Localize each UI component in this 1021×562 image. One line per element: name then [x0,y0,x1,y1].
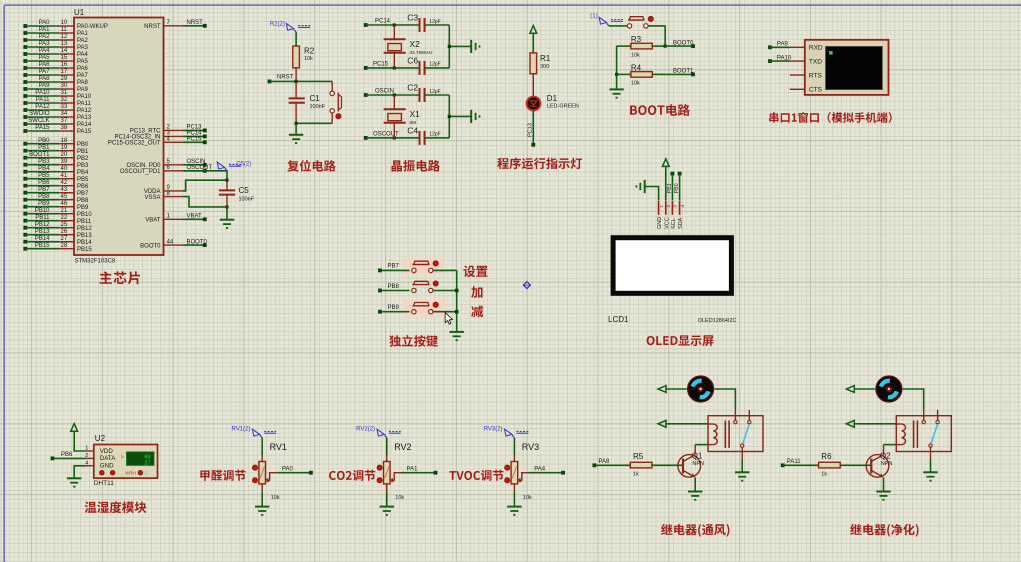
svg-text:OLED12864I2C: OLED12864I2C [698,318,737,324]
probe C5(2) [217,162,224,169]
svg-text:PA15: PA15 [77,129,92,135]
power symbol (motor) [658,386,666,393]
svg-text:OSCIN: OSCIN [375,89,394,95]
svg-text:PB2: PB2 [77,156,89,162]
svg-text:37: 37 [61,118,68,124]
wire contact to ground [930,447,932,459]
svg-text:PB9: PB9 [77,205,89,211]
svg-text:27: 27 [144,461,150,467]
svg-text:12: 12 [61,34,68,40]
wire PB left pin PB10 [23,212,27,216]
svg-text:29: 29 [61,76,68,82]
adjust buttons RV3 [505,465,510,470]
ground (C5) [220,219,234,221]
wire probe to RV1 [261,438,263,455]
label 程序运行指示灯 [497,158,582,170]
svg-text:PB8: PB8 [77,198,89,204]
svg-text:PA5: PA5 [39,55,51,61]
svg-text:C: C [145,471,149,477]
wire PB left pin PB7 [23,191,27,195]
svg-text:15: 15 [61,55,68,61]
svg-text:12pF: 12pF [429,132,440,138]
potentiometer RV3 [511,462,518,484]
resistor R5 [630,462,652,468]
junction C5 top [225,179,228,182]
svg-text:PB6: PB6 [77,184,89,190]
junction PC14/crystal [393,23,396,26]
svg-text:NRST: NRST [144,24,161,30]
svg-text:VBAT: VBAT [145,218,161,224]
svg-text:PB7: PB7 [77,191,89,197]
wire right pin NRST [164,25,184,27]
probe RV2(2) [377,429,384,436]
push button (BOOT) [627,24,631,28]
svg-text:PB12: PB12 [77,226,92,232]
terminal screen [826,46,883,89]
wire PA left pin PA11 [23,101,27,105]
selection highlight key1 [402,258,443,274]
svg-text:OSCOUT_PD1: OSCOUT_PD1 [120,169,161,175]
svg-text:1k: 1k [633,471,639,477]
relay switch blade [743,424,749,443]
resistor R6 [819,462,841,468]
svg-text:RV3(2): RV3(2) [484,427,503,433]
svg-text:SCL: SCL [671,218,677,229]
power symbol (LED) [530,26,537,34]
wire PB left pin PB12 [23,226,27,230]
push button key PB9 [412,310,416,314]
wire PA left pin PA15 [23,129,27,133]
svg-text:PA13: PA13 [77,115,92,121]
wire right pin OSCIN_PD0 [164,164,184,166]
wire right pin VBAT [164,218,184,220]
power symbol (motor) [846,386,854,393]
svg-text:PA6: PA6 [39,62,51,68]
svg-text:%RH: %RH [125,471,137,477]
svg-text:VSSA: VSSA [144,195,160,201]
motor (fan) [876,376,902,402]
junction OSCOUT/crystal [393,136,396,139]
wire PA left pin PA5 [23,59,27,63]
wire button to BOOT0 rail [648,26,665,46]
label 温湿度模块 [85,501,147,513]
resistor R1 [530,53,537,74]
wire coil top [666,423,708,425]
svg-text:SWCLK: SWCLK [28,118,49,124]
svg-text:NPN: NPN [692,461,704,467]
svg-text:22: 22 [61,215,68,221]
svg-text:14: 14 [61,48,68,54]
capacitor C1 [295,81,297,98]
svg-text:>: > [121,455,124,461]
wire PB left pin PB1 [23,149,27,153]
node PC14 [183,135,205,137]
svg-text:PB11: PB11 [35,215,50,221]
svg-text:44: 44 [167,239,174,245]
svg-text:PA10: PA10 [35,90,50,96]
capacitor C3 [419,18,421,32]
svg-text:GND: GND [100,463,114,470]
terminal cursor [829,51,833,55]
svg-text:12pF: 12pF [429,19,440,25]
node NRST [268,80,272,84]
svg-text:BOOT1: BOOT1 [29,152,50,158]
svg-text:20: 20 [61,152,68,158]
svg-text:12pF: 12pF [429,89,440,95]
wire base [652,464,682,466]
wire probe to RV3 [513,438,515,455]
relay coil [713,424,717,445]
junction bus PB8 [455,289,459,293]
wire PA left pin PA8 [23,80,27,84]
svg-text:21: 21 [61,208,68,214]
svg-text:PA2: PA2 [39,34,51,40]
wire key bus [456,270,458,332]
svg-text:38: 38 [61,125,68,131]
potentiometer RV2 [384,462,391,484]
svg-text:RXD: RXD [809,45,823,52]
svg-text:31: 31 [61,90,68,96]
wire PA left pin PA2 [23,38,27,42]
svg-text:C3: C3 [407,13,418,23]
svg-text:PA7: PA7 [77,73,89,79]
power symbol (DHT11) [71,424,78,432]
probe RV3(2) [505,429,512,436]
wire coil top [854,423,896,425]
svg-text:PA12: PA12 [35,104,50,110]
node BOOT0 [183,244,205,246]
svg-text:PA4: PA4 [77,52,89,58]
node OSCOUT [183,170,205,172]
label CO2调节 [329,470,375,481]
svg-text:PA2: PA2 [77,38,89,44]
junction rail [295,122,298,125]
svg-text:33: 33 [61,104,68,110]
pin 1 DHT11 [86,450,94,452]
wire probe to RV2 [386,438,388,455]
relay contacts [734,409,736,420]
node PB1 terminal [671,172,675,176]
svg-text:19: 19 [61,145,68,151]
node VBAT [183,218,205,220]
svg-text:PB7: PB7 [388,264,400,270]
svg-text:13: 13 [61,41,68,47]
wire to ground [616,74,618,89]
svg-text:PB6: PB6 [61,452,73,458]
pin 2 DHT11 [86,457,94,459]
svg-text:10k: 10k [304,56,313,62]
pin GND [657,200,661,215]
label 串口1窗口（模拟手机端） [769,112,892,123]
ground (BOOT) [609,88,623,90]
push button key PB7 [412,268,416,272]
svg-text:DHT11: DHT11 [94,480,114,487]
crystal X2 [393,25,395,39]
svg-text:LED-GREEN: LED-GREEN [547,104,579,110]
relay body [896,416,951,452]
wire PB left pin PB15 [23,247,27,251]
ground (Q1 emitter) [688,491,702,493]
wire PB left pin PB8 [23,198,27,202]
svg-text:C1: C1 [310,94,321,103]
svg-text:42: 42 [61,180,68,186]
pin RXD [790,46,805,48]
svg-text:PB9: PB9 [38,201,50,207]
wire GND pin [74,466,85,479]
node PA4 [529,472,564,474]
label 加 [471,286,482,298]
wire PB left pin PB3 [23,163,27,167]
svg-text:40: 40 [61,166,68,172]
node OSCOUT [364,136,368,140]
svg-text:PA0: PA0 [39,20,51,26]
wire PA left pin PA7 [23,73,27,77]
wire gnd to pin1 [645,187,659,202]
label OLED显示屏 [647,335,714,346]
svg-text:GND: GND [657,217,663,229]
svg-text:43: 43 [61,187,68,193]
junction gnd branch [448,45,451,48]
wire PB left pin PB13 [23,233,27,237]
node OSCIN [364,93,368,97]
wire base [840,464,870,466]
crystal X1 [393,95,395,109]
wire RV2 to ground [386,484,388,492]
svg-text:Q1: Q1 [692,452,703,461]
node PB6 [51,457,55,461]
svg-text:25: 25 [61,222,68,228]
svg-text:U1: U1 [74,8,85,17]
node PA11 [781,463,785,467]
svg-text:PB15: PB15 [35,243,50,249]
svg-text:PB3: PB3 [38,159,50,165]
svg-text:16: 16 [61,62,68,68]
virtual terminal frame [805,40,889,95]
wire right pin BOOT0 [164,244,184,246]
motor (fan) [688,376,714,402]
wire PA left pin PA10 [23,94,27,98]
wire RV3 to ground [513,484,515,492]
wire PB left pin PB11 [23,219,27,223]
svg-text:NPN: NPN [881,461,893,467]
svg-text:RV2(2): RV2(2) [356,427,375,433]
label 设置 [463,266,487,278]
capacitor C2 [419,88,421,102]
wire R3-R4 vertical [616,46,618,74]
svg-text:R2: R2 [304,47,315,56]
wire PB left pin PB6 [23,184,27,188]
svg-text:28: 28 [61,243,68,249]
wire emitter to ground [883,477,885,491]
wire OSCOUT to C5 top [183,171,227,180]
node PC15 [364,66,368,70]
node PC13 [183,129,205,131]
wire button bottom rail [331,113,333,123]
svg-text:18: 18 [61,138,68,144]
label 继电器(通风) [661,524,729,537]
svg-text:PB8: PB8 [38,194,50,200]
wire VSSA to C5 [183,197,227,207]
power symbol (coil) [846,420,854,427]
pin SDA [678,200,682,215]
ground (Q2 emitter) [876,491,890,493]
svg-text:R3: R3 [631,35,642,44]
svg-text:BOOT0: BOOT0 [140,243,161,249]
wire right pin PC15-OSC32_OUT [164,141,184,143]
svg-text:11: 11 [61,27,68,33]
svg-text:PB0: PB0 [77,142,89,148]
node PB0 terminal [678,172,682,176]
svg-text:PB11: PB11 [77,219,92,225]
wire to ground [295,123,297,135]
svg-text:PB4: PB4 [77,170,89,176]
node PA9 [768,45,772,49]
probe (1) [599,17,606,24]
svg-text:10k: 10k [631,52,640,58]
svg-text:RV3: RV3 [522,442,539,452]
ground (relay contact) [735,471,749,473]
capacitor C5 [226,180,228,190]
label 继电器(净化) [850,524,918,537]
svg-text:17: 17 [61,69,68,75]
svg-text:DATA: DATA [100,455,116,462]
svg-text:PA5: PA5 [77,59,89,65]
svg-text:SDA: SDA [678,217,684,229]
svg-text:C5(2): C5(2) [236,161,251,167]
svg-text:PB6: PB6 [38,180,50,186]
transistor Q1 [678,455,701,478]
potentiometer RV1 [259,462,266,484]
wire PB left pin BOOT1 [23,156,27,160]
svg-text:VBAT: VBAT [187,214,203,220]
DHT11 buttons [100,470,105,475]
svg-text:PA15: PA15 [35,125,50,131]
pin CTS [790,88,805,90]
wire PA left pin PA3 [23,45,27,49]
DHT11 display [127,452,154,465]
ground (RV2) [380,506,394,508]
label BOOT电路 [630,104,690,116]
label 晶振电路 [392,160,440,172]
wire PB left pin PB14 [23,240,27,244]
svg-text:PA9: PA9 [39,83,51,89]
wire key to bus [433,290,457,292]
mouse cursor [445,313,452,325]
svg-text:PA1: PA1 [407,466,419,472]
svg-text:1: 1 [85,446,88,452]
svg-text:PA10: PA10 [77,94,92,100]
probe R2(2) [286,23,293,30]
svg-text:U2: U2 [95,434,106,443]
wire motor left [666,388,687,390]
ground (reset) [289,134,303,136]
wire probe to button [609,25,627,27]
svg-text:PA10: PA10 [777,55,792,61]
svg-text:PA4: PA4 [534,466,546,472]
svg-text:SWDIO: SWDIO [29,111,50,117]
svg-text:PB1: PB1 [77,149,89,155]
svg-text:69: 69 [144,454,150,460]
svg-text:RV1(2): RV1(2) [232,427,251,433]
wire right pin VDDA [164,190,184,192]
svg-text:PB13: PB13 [35,229,50,235]
wire caps to ground [425,94,450,96]
wire key to bus [433,269,457,271]
svg-text:X1: X1 [410,109,421,119]
svg-text:45: 45 [61,194,68,200]
node PC15 [183,141,205,143]
svg-text:PA1: PA1 [77,31,89,37]
wire R1 to LED [532,74,534,97]
svg-text:PA11: PA11 [36,97,50,103]
svg-text:C6: C6 [407,56,418,66]
svg-text:PB12: PB12 [35,222,50,228]
svg-text:PA8: PA8 [599,459,611,465]
svg-text:PA11: PA11 [787,459,801,465]
relay coil [902,424,906,445]
svg-text:PB15: PB15 [77,247,92,253]
capacitor C6 [419,61,421,75]
wire RV1 to ground [261,484,263,492]
svg-text:PC15-OSC32_OUT: PC15-OSC32_OUT [108,141,161,147]
svg-text:STM32F103C8: STM32F103C8 [75,259,116,265]
power symbol (coil) [658,420,666,427]
node NRST [183,25,205,27]
LCD1 OLED display body [613,238,731,294]
svg-text:CTS: CTS [809,87,823,94]
svg-text:BOOT0: BOOT0 [187,239,208,245]
ground (RV1) [255,506,269,508]
svg-text:300: 300 [540,64,549,70]
wire PB left pin PB0 [23,142,27,146]
svg-text:C4: C4 [407,126,418,136]
svg-text:10k: 10k [271,495,280,501]
svg-text:PC15: PC15 [373,61,389,67]
svg-text:4: 4 [85,461,88,467]
svg-text:PA12: PA12 [77,108,92,114]
wire contact to ground [741,447,743,459]
svg-text:PB3: PB3 [77,163,89,169]
label 独立按键 [389,335,438,347]
wire PB left pin PB9 [23,205,27,209]
wire C5 to ground [226,207,228,220]
pin 4 DHT11 [86,465,94,467]
op-amp U1 body (STM32F103C8 MCU) [74,18,164,256]
svg-text:39: 39 [61,159,68,165]
label TVOC调节 [449,470,503,481]
junction gnd branch [448,115,451,118]
svg-text:10: 10 [61,20,68,26]
pin VCC [664,200,668,215]
junction C5 bottom [225,205,228,208]
svg-text:Q2: Q2 [880,452,891,461]
svg-text:PC13: PC13 [528,123,534,137]
relay contacts [923,409,925,420]
resistor R2 [293,46,300,68]
svg-text:RV2: RV2 [394,442,411,452]
wire caps to ground [425,24,450,26]
node BOOT0 [665,45,693,47]
wire PA left pin PA6 [23,66,27,70]
junction BOOT0 [664,45,667,48]
node OSCIN [183,164,205,166]
svg-text:PA0-WKUP: PA0-WKUP [77,24,108,30]
svg-text:R1: R1 [540,54,551,63]
node PA8 [593,463,597,467]
wire right pin OSCOUT_PD1 [164,170,184,172]
wire probe to R2 [295,32,297,46]
svg-text:PB4: PB4 [38,166,50,172]
